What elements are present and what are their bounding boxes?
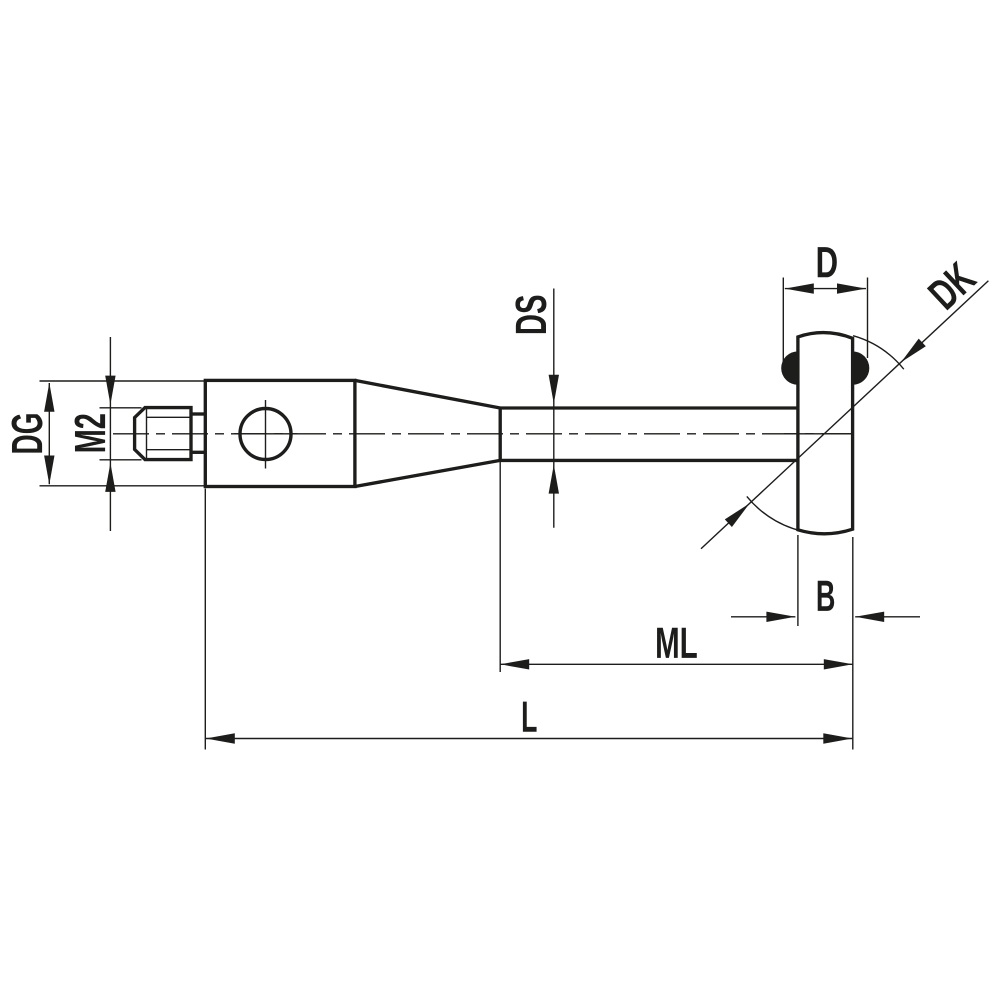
- dimension DK arc upper: [853, 336, 904, 370]
- taper top edge: [355, 380, 500, 408]
- dimension D arrow right: [837, 283, 866, 293]
- label D: [818, 247, 837, 277]
- label DG: [12, 414, 43, 452]
- dimension ML arrow left: [500, 659, 529, 669]
- label L: [523, 702, 537, 732]
- hole horizontal centerline: [234, 433, 297, 435]
- dimension DK arrow upper: [901, 339, 926, 363]
- thread M2 outline: [135, 408, 191, 460]
- dimension L arrow left: [206, 733, 235, 743]
- stem top edge: [500, 406, 799, 409]
- dimension B arrow left-pointing: [855, 612, 884, 622]
- dimension DG extension top: [40, 380, 209, 382]
- dimension ML line: [500, 663, 853, 665]
- dimension L extension left: [204, 489, 206, 750]
- dimension B line right: [855, 616, 920, 618]
- taper bottom edge: [355, 460, 500, 486]
- label DK: [927, 260, 978, 310]
- dimension L arrow right: [823, 733, 852, 743]
- dimension M2 extension top: [100, 407, 142, 409]
- dimension D arrow left: [785, 283, 814, 293]
- holder body: [205, 380, 355, 486]
- thread root line bottom: [147, 449, 192, 451]
- dimension D extension right: [867, 278, 869, 359]
- dimension ML extension left: [499, 462, 501, 672]
- dimension DG arrow down: [44, 456, 54, 485]
- dimension B arrow right-pointing: [766, 612, 795, 622]
- label M2: [75, 414, 106, 451]
- label ML: [657, 628, 697, 658]
- label B: [818, 581, 834, 611]
- centerline: [113, 433, 852, 435]
- dimension DG extension bottom: [40, 485, 209, 487]
- disc centerline segment: [784, 433, 852, 435]
- roller left lobe: [781, 351, 814, 384]
- dimension DG line: [48, 383, 50, 484]
- dimension D extension left: [782, 278, 784, 362]
- dimension L line: [206, 738, 853, 740]
- neck bottom edge: [191, 451, 206, 454]
- stem bottom edge: [500, 459, 799, 462]
- thread root line top: [147, 416, 192, 418]
- dimension DG arrow up: [44, 383, 54, 412]
- dimension DK diagonal line: [701, 281, 988, 549]
- dimension M2 extension bottom: [100, 459, 142, 461]
- dimension DS line: [553, 289, 555, 528]
- dimension M2 line: [109, 337, 111, 531]
- hole vertical centerline: [265, 400, 267, 469]
- label DS: [515, 296, 546, 334]
- dimension B line left: [731, 616, 795, 618]
- dimension DS arrow down: [549, 375, 559, 404]
- hole circle: [240, 409, 291, 460]
- dimension DK arrow lower: [725, 503, 750, 527]
- shared right extension line: [852, 537, 854, 750]
- roller right lobe: [836, 351, 869, 384]
- disc body: [798, 333, 853, 534]
- dimension DS arrow up: [549, 465, 559, 494]
- thread chamfer line: [146, 408, 148, 460]
- neck top edge: [191, 412, 206, 415]
- dimension B extension left: [797, 535, 799, 626]
- dimension M2 arrow down: [105, 376, 115, 405]
- dimension ML arrow right: [824, 659, 853, 669]
- dimension M2 arrow up: [105, 463, 115, 492]
- taper-stem junction line: [499, 407, 502, 462]
- dimension D line: [785, 288, 866, 290]
- dimension DK arc lower: [747, 496, 811, 532]
